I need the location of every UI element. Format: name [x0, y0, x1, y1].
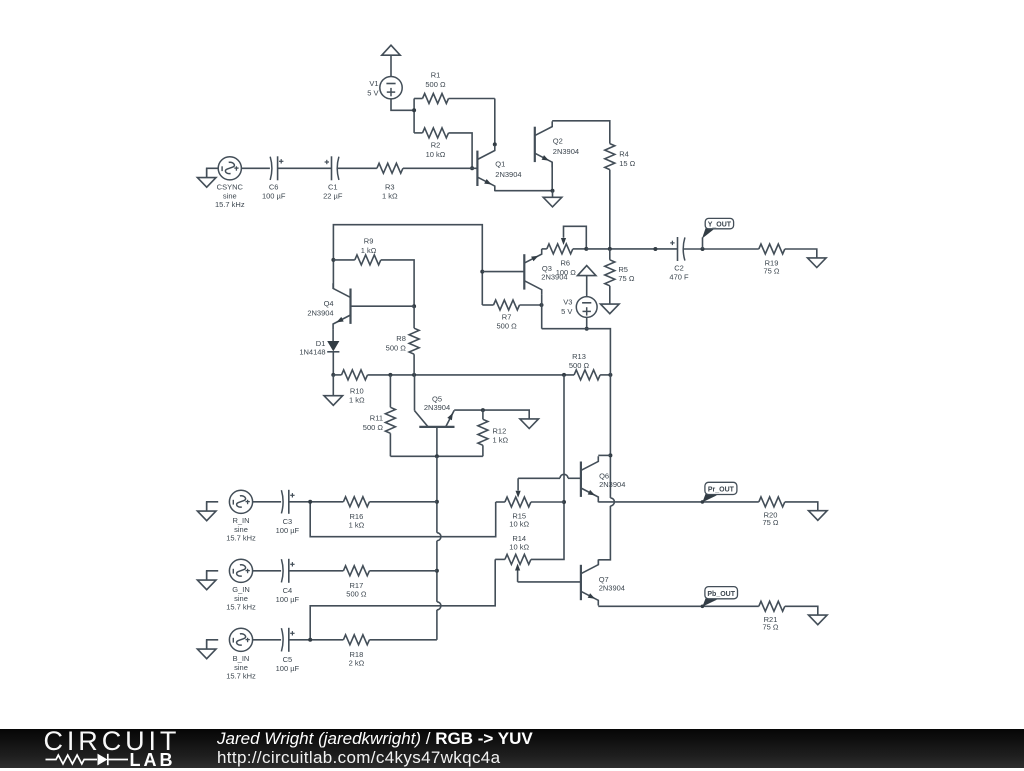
bottom black bar: [0, 729, 1024, 768]
ground B_IN: [207, 640, 219, 649]
power flag V3: [578, 266, 596, 276]
wire G_IN to C4: [253, 570, 282, 572]
ground CSYNC: [207, 168, 219, 177]
capacitor C4: [281, 559, 283, 582]
resistor R6 potentiometer: [542, 248, 547, 250]
wire Q3 collector rail to riser: [542, 329, 611, 375]
wire Q5 collector up: [414, 375, 416, 411]
node sum/R17: [435, 569, 439, 573]
ground right of Q5: [520, 419, 539, 429]
resistor R15 potentiometer: [496, 501, 505, 503]
wire Q6 base with hop: [518, 477, 560, 479]
node rail/R15-R14 riser: [562, 373, 566, 377]
resistor R14 potentiometer: [495, 558, 505, 560]
wire R1-R2 left riser: [413, 99, 415, 133]
node C5 out: [308, 638, 312, 642]
capacitor C6: [270, 157, 272, 180]
url line: [217, 748, 500, 768]
ground after R21: [809, 615, 828, 625]
resistor R2: [414, 132, 422, 134]
ground G_IN: [207, 571, 219, 580]
node riser/R15 right: [562, 500, 566, 504]
source B_IN sine: [229, 628, 252, 651]
wire sum riser: [436, 456, 438, 532]
transistor Q3: [523, 254, 525, 289]
wire Q7 collector: [597, 560, 599, 565]
resistor R18: [343, 635, 369, 645]
node D1/R10/ground: [331, 373, 335, 377]
transistor Q5: [419, 426, 454, 428]
node R2/R3/Q1 base: [470, 166, 474, 170]
transistor Q4: [349, 289, 351, 324]
wire R1 to Q1 collector node: [494, 99, 496, 145]
node C3 out: [308, 500, 312, 504]
resistor R16: [343, 497, 369, 507]
node rail/Q3 base: [480, 270, 484, 274]
node R4-R5 tap: [608, 247, 612, 251]
power flag VCC top: [382, 45, 400, 55]
wire Y node rail: [586, 248, 677, 250]
resistor R20: [759, 497, 785, 507]
voltage source V1: [380, 77, 402, 99]
node Q1/Q2 emitters: [551, 189, 555, 193]
wire C6 to C1: [278, 167, 332, 169]
source G_IN sine: [229, 559, 252, 582]
node V3/rail: [585, 327, 589, 331]
capacitor C2: [683, 237, 685, 260]
wire C3 to R16: [289, 501, 344, 503]
resistor R12: [482, 410, 484, 419]
wiper R14 to Q7 base: [517, 570, 519, 582]
node junction V1/R1/R2: [412, 108, 416, 112]
wire Q6 collector: [598, 454, 610, 456]
resistor R11: [389, 375, 391, 407]
transistor Q6: [580, 462, 582, 497]
capacitor C1: [337, 157, 339, 180]
resistor R3: [377, 163, 403, 173]
wire R6 wiper loop: [564, 226, 587, 249]
source CSYNC sine: [218, 157, 241, 180]
wire C4 to R17: [289, 570, 344, 572]
title line: [217, 729, 533, 749]
wire Q3 base: [482, 271, 524, 273]
wire Q4 base: [351, 305, 415, 307]
node riser/Q6 collector: [608, 453, 612, 457]
wire Q3 collector down to rail: [541, 295, 543, 329]
transistor Q1: [476, 151, 478, 186]
transistor Q7: [580, 565, 582, 600]
node Y_OUT attach: [701, 247, 705, 251]
wire C5 to R18: [289, 639, 344, 641]
ground R_IN: [207, 502, 219, 511]
wiper R15 to Q6 base: [517, 478, 519, 490]
wire R_IN to C3: [253, 501, 282, 503]
wire mid top rail: [333, 225, 482, 305]
ground below R5: [601, 304, 620, 314]
ground Q1 Q2 emitters: [552, 191, 554, 198]
node R1/Q1 collector/Q2 base: [493, 142, 497, 146]
node flag Pb_OUT: [701, 605, 705, 609]
node Q5 base/sum riser: [435, 454, 439, 458]
wire R15R14 riser: [531, 375, 564, 560]
transistor Q2: [534, 127, 536, 162]
ground below D1: [332, 375, 334, 396]
capacitor C5: [281, 628, 283, 651]
resistor R9: [333, 259, 354, 261]
logo wire: [46, 754, 129, 765]
capacitor C3: [281, 490, 283, 513]
voltage source V3: [576, 297, 597, 318]
wire V1 top stem: [390, 55, 392, 77]
node Y wire dot: [653, 247, 657, 251]
resistor R10: [333, 374, 341, 376]
resistor R17: [343, 566, 369, 576]
logo diode: [98, 754, 108, 766]
node rail/R11 top: [388, 373, 392, 377]
resistor R5: [609, 249, 611, 260]
wire C2 to Y_OUT node: [683, 248, 759, 250]
resistor R19: [759, 244, 785, 254]
wire R11-R12 bottom rail: [390, 455, 483, 457]
node R7 right/Q3 collector line: [540, 303, 544, 307]
node flag Pr_OUT: [701, 500, 705, 504]
ground after R19: [808, 258, 827, 268]
wire Q7 emitter Pb row: [598, 605, 759, 607]
source R_IN sine: [229, 490, 252, 513]
wire V3 top stem: [586, 276, 588, 297]
wire V1 bottom to junction: [391, 99, 414, 110]
node R6 right/loop: [584, 247, 588, 251]
resistor R21: [759, 601, 785, 611]
resistor R8: [413, 306, 415, 328]
wire Q6 emitter Pr row: [598, 501, 759, 503]
wire Q5 emitter row: [454, 410, 529, 419]
resistor R4: [605, 144, 615, 170]
resistor R13: [574, 370, 600, 380]
CircuitLab logo text LAB: [130, 750, 176, 771]
wire path B B_IN to R14: [310, 559, 495, 639]
node sum/R16: [435, 500, 439, 504]
wire Q2 emitter down: [551, 162, 553, 191]
wire main riser R13 to Q7: [609, 375, 611, 498]
node rail/R8 bottom: [412, 373, 416, 377]
resistor R1: [414, 98, 422, 100]
wire C1 to R3: [337, 167, 377, 169]
node Q5 emitter/R12: [481, 408, 485, 412]
CircuitLab logo text CIRCUIT: [44, 726, 181, 757]
wire Q4 emitter to D1: [332, 329, 334, 341]
resistor R7: [482, 304, 493, 306]
wire CSYNC to C6: [241, 167, 270, 169]
node rail/R9 left: [331, 258, 335, 262]
node R9/R8/Q4 base: [412, 304, 416, 308]
ground after R20: [809, 511, 828, 521]
diode D1: [327, 341, 339, 351]
wire B_IN to C5: [253, 639, 282, 641]
node rail/R13 right/main riser: [608, 373, 612, 377]
node flag Y_OUT: [702, 237, 704, 249]
wire V3 bottom: [586, 317, 588, 328]
wire path A R_IN to R15: [310, 502, 496, 537]
wire Q7 base: [518, 581, 581, 583]
wire Q1 emitter to ground node: [495, 190, 553, 192]
wire Q2 collector to R4: [552, 121, 610, 144]
